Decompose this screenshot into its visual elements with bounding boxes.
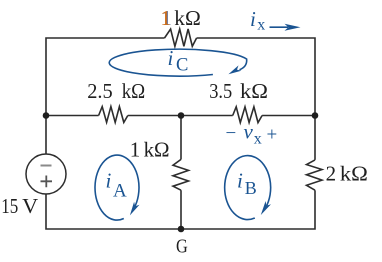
mesh current i_B label xyxy=(237,169,257,199)
svg-text:3.5: 3.5 xyxy=(209,79,232,103)
mesh current loop i_C (ellipse arrow, clockwise) xyxy=(109,49,246,76)
resistor 2 kOhm (right) xyxy=(307,160,323,190)
node dot: right / middle wire junction xyxy=(312,112,319,119)
mesh current loop i_A (ellipse arrow, clockwise) xyxy=(95,155,139,220)
svg-text:15: 15 xyxy=(1,194,18,218)
wire: middle horizontal, center segment xyxy=(128,115,233,117)
node dot: ground node G xyxy=(178,226,185,233)
label: 15 V xyxy=(1,194,38,218)
svg-text:v: v xyxy=(244,119,254,143)
label: 2.5 kOhm xyxy=(87,79,145,103)
voltage source V1 15V circle xyxy=(26,154,66,194)
svg-text:2.5: 2.5 xyxy=(87,79,113,103)
svg-text:kΩ: kΩ xyxy=(144,137,170,161)
mesh current i_A label xyxy=(106,169,128,202)
label: 3.5 kOhm xyxy=(209,79,268,103)
wire: middle vertical, lower segment xyxy=(180,190,182,229)
resistor 1 kOhm (top) xyxy=(165,29,197,46)
svg-text:kΩ: kΩ xyxy=(340,162,368,186)
node dot: left / middle wire junction xyxy=(43,112,50,119)
svg-text:i: i xyxy=(106,169,112,193)
svg-text:+: + xyxy=(267,125,278,146)
svg-text:C: C xyxy=(176,56,188,76)
svg-text:−: − xyxy=(226,123,237,144)
svg-text:1: 1 xyxy=(130,137,141,161)
svg-text:1: 1 xyxy=(160,6,171,30)
wire: middle horizontal, left segment xyxy=(46,115,99,117)
svg-text:kΩ: kΩ xyxy=(240,79,268,103)
svg-text:kΩ: kΩ xyxy=(174,6,201,30)
svg-text:x: x xyxy=(254,130,262,147)
svg-text:x: x xyxy=(257,17,265,34)
voltage source plus sign xyxy=(41,176,53,188)
svg-text:G: G xyxy=(176,235,188,257)
svg-text:i: i xyxy=(250,7,256,31)
svg-text:i: i xyxy=(168,46,174,70)
resistor 1 kOhm (middle) xyxy=(173,159,189,190)
wire: top side left segment + left side upper (corner joined) xyxy=(46,38,165,154)
mesh current i_C label xyxy=(168,46,189,76)
voltage label: minus v_x plus xyxy=(226,119,278,147)
branch current i_x arrow xyxy=(270,24,301,31)
wire: middle horizontal, right segment xyxy=(262,115,315,117)
voltage source minus sign xyxy=(41,165,52,167)
svg-text:A: A xyxy=(113,180,127,201)
resistor 3.5 kOhm xyxy=(233,107,262,123)
wire: left side lower + bottom side + right side lower (corners joined) xyxy=(46,190,315,229)
node dot: center junction xyxy=(178,112,185,119)
mesh current loop i_B (ellipse arrow, clockwise) xyxy=(225,156,271,220)
wire: middle vertical, upper segment xyxy=(180,116,182,160)
svg-text:kΩ: kΩ xyxy=(122,79,146,103)
svg-text:B: B xyxy=(245,178,257,198)
label: 1 kOhm (middle resistor value) xyxy=(130,137,170,161)
label: 2 kOhm xyxy=(326,162,368,186)
svg-text:V: V xyxy=(22,194,38,218)
svg-text:i: i xyxy=(237,169,243,193)
wire: top side right segment + right side upper (corner joined) xyxy=(197,38,315,160)
svg-text:2: 2 xyxy=(326,162,337,186)
label: 1 kOhm (top resistor value, "1" highlighted orange) xyxy=(160,6,200,30)
resistor 2.5 kOhm xyxy=(99,107,128,123)
